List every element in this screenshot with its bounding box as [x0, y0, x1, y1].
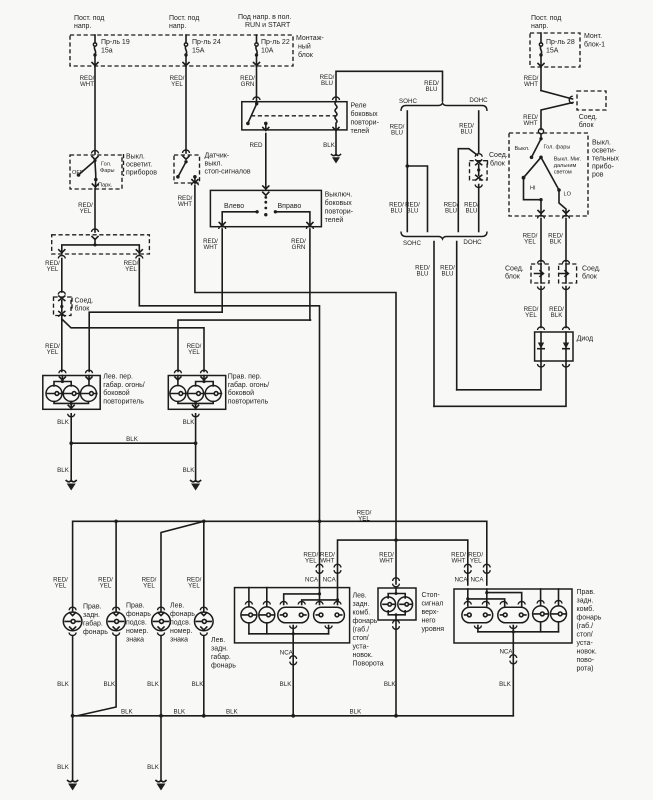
relay coil ground BLK — [335, 132, 337, 154]
link wires to diode — [457, 361, 541, 390]
svg-text:задн.: задн. — [577, 598, 594, 605]
svg-text:BLU: BLU — [321, 80, 333, 87]
svg-text:BLK: BLK — [192, 681, 205, 688]
wire fuse19 to headlight switch RED/WHT — [94, 66, 96, 154]
svg-text:YEL: YEL — [171, 81, 183, 88]
svg-text:DOHC: DOHC — [469, 97, 488, 104]
merged SOHC wire down — [433, 242, 435, 407]
svg-text:YEL: YEL — [55, 583, 67, 590]
svg-text:BLU: BLU — [391, 130, 403, 137]
svg-text:YEL: YEL — [143, 583, 155, 590]
svg-text:BLK: BLK — [280, 681, 293, 688]
right rear combination lamp Прав. задн. комб. фонарь — [454, 589, 602, 673]
svg-text:блок: блок — [298, 51, 314, 59]
svg-text:YEL: YEL — [470, 558, 482, 565]
svg-text:Пр-ль 28: Пр-ль 28 — [546, 39, 575, 46]
svg-text:NCA: NCA — [454, 577, 468, 584]
svg-text:повторитель: повторитель — [103, 398, 144, 405]
merged DOHC wire down — [456, 242, 458, 390]
svg-text:подсв.: подсв. — [170, 620, 191, 627]
left combo output to ground bus — [290, 656, 297, 665]
wires to diode — [540, 287, 542, 328]
svg-text:него: него — [422, 618, 436, 625]
svg-text:YEL: YEL — [80, 208, 92, 215]
bottoms — [474, 626, 481, 629]
rear lamp 3 Лев. фонарь подсв. номер. знака — [152, 603, 196, 644]
svg-text:знака: знака — [170, 637, 188, 644]
svg-text:прибо-: прибо- — [592, 163, 614, 171]
svg-text:фонарь: фонарь — [83, 629, 108, 636]
svg-text:повтори-: повтори- — [325, 209, 354, 216]
svg-text:BLK: BLK — [323, 142, 336, 149]
svg-text:NCA: NCA — [470, 577, 484, 584]
svg-text:WHT: WHT — [379, 558, 393, 565]
svg-text:Выкл.: Выкл. — [126, 154, 145, 161]
svg-text:напр.: напр. — [531, 23, 548, 30]
svg-text:YEL: YEL — [524, 239, 536, 246]
svg-text:блок: блок — [579, 121, 595, 129]
internals: feeds — [467, 589, 469, 606]
BLK ground bus — [73, 715, 514, 717]
svg-text:комб.: комб. — [577, 605, 595, 613]
svg-text:BLK: BLK — [121, 709, 134, 716]
svg-text:Пр-ль 24: Пр-ль 24 — [192, 39, 221, 46]
svg-text:телей: телей — [325, 216, 344, 224]
svg-text:блок-1: блок-1 — [584, 41, 605, 49]
svg-text:NCA: NCA — [323, 577, 337, 584]
Соед. блок connector (left) — [54, 292, 94, 317]
svg-text:светом: светом — [554, 170, 572, 176]
svg-text:YEL: YEL — [100, 583, 112, 590]
single bulbs — [533, 606, 549, 622]
svg-text:Прав. пер.: Прав. пер. — [228, 374, 262, 381]
wire relay to turn switch RED — [265, 134, 267, 190]
headlight switch Выкл. осветит. приборов — [70, 151, 157, 190]
svg-text:LO: LO — [564, 192, 572, 198]
svg-text:Поворота: Поворота — [353, 661, 384, 668]
fuse Пр-ль 24 15А — [183, 35, 221, 66]
svg-text:Гол. фары: Гол. фары — [544, 145, 571, 151]
svg-text:BLU: BLU — [460, 129, 472, 136]
internals: feeds — [319, 588, 321, 605]
DOHC wire RED/BLU — [478, 111, 480, 153]
svg-text:YEL: YEL — [188, 583, 200, 590]
svg-text:комб.: комб. — [353, 609, 371, 617]
svg-text:фонарь: фонарь — [211, 663, 236, 670]
NCA inline connectors (rear inputs) — [316, 564, 490, 587]
svg-text:блок: блок — [505, 273, 521, 281]
headlight switch big box Выкл. осветительных приборов — [509, 129, 619, 216]
turn switch right output RED/GRN — [306, 226, 313, 229]
svg-text:GRN: GRN — [292, 244, 306, 251]
svg-text:SOHC: SOHC — [403, 240, 421, 247]
svg-text:DOHC: DOHC — [463, 239, 482, 246]
svg-text:Соед.: Соед. — [582, 266, 601, 273]
svg-text:YEL: YEL — [305, 558, 317, 565]
svg-text:NCA: NCA — [280, 650, 294, 657]
RED/WHT stop feed bus — [394, 538, 398, 542]
svg-text:WHT: WHT — [320, 558, 334, 565]
svg-text:напр.: напр. — [169, 23, 186, 30]
svg-text:боковых: боковых — [325, 199, 353, 207]
svg-text:OFF: OFF — [72, 170, 84, 176]
svg-text:BLU: BLU — [416, 271, 428, 278]
brake switch output RED/WHT down right to stop feed — [191, 182, 198, 185]
svg-text:Стоп-: Стоп- — [422, 592, 441, 599]
svg-text:Влево: Влево — [224, 203, 244, 210]
svg-text:освети-: освети- — [592, 148, 617, 155]
svg-text:BLK: BLK — [183, 419, 196, 426]
fuse Пр-ль 22 10А — [254, 35, 290, 66]
wire connector to left front lamp RED/YEL — [61, 316, 63, 372]
diode Диод — [535, 327, 593, 367]
svg-text:Лев.: Лев. — [353, 593, 367, 600]
svg-text:Выкл.: Выкл. — [515, 146, 531, 152]
svg-text:BLK: BLK — [551, 312, 564, 319]
wire switch to distribution box RED/YEL — [94, 189, 96, 232]
svg-text:YEL: YEL — [125, 266, 137, 273]
svg-text:фонарь: фонарь — [170, 611, 195, 618]
right fuse block Монт. блок-1 — [530, 15, 605, 67]
svg-text:WHT: WHT — [524, 81, 538, 88]
svg-text:WHT: WHT — [451, 558, 465, 565]
svg-text:задн.: задн. — [211, 646, 228, 653]
svg-text:Прав.: Прав. — [83, 604, 102, 611]
svg-text:NCA: NCA — [305, 577, 319, 584]
svg-text:стоп-сигналов: стоп-сигналов — [205, 169, 251, 176]
svg-text:NCA: NCA — [499, 649, 513, 656]
svg-text:Лев. пер.: Лев. пер. — [103, 374, 133, 381]
svg-text:подсв.: подсв. — [126, 620, 147, 627]
svg-text:рота): рота) — [577, 666, 594, 673]
svg-text:Монтаж-: Монтаж- — [296, 35, 324, 42]
svg-text:Пост. под: Пост. под — [169, 15, 199, 22]
wire left output RED/YEL to Соед.блок — [58, 256, 65, 259]
right front lamp Прав. пер. габар. огонь/боковой повторитель — [168, 370, 269, 409]
front lamps ground wiring BLK — [57, 414, 200, 491]
svg-text:15а: 15а — [101, 48, 113, 55]
relay coil top feed RED/BLU to SOHC/DOHC split — [336, 71, 443, 101]
svg-text:фонарь: фонарь — [577, 615, 602, 622]
svg-text:уста-: уста- — [353, 644, 370, 651]
svg-text:боковой: боковой — [228, 389, 254, 397]
svg-text:SOHC: SOHC — [399, 98, 417, 105]
svg-text:BLK: BLK — [57, 419, 70, 426]
Соед. блок connector pair (diode row) — [505, 261, 549, 290]
wire RED/GRN right turn feed to right lamp terminal 1 — [178, 320, 311, 371]
svg-text:GRN: GRN — [241, 81, 255, 88]
svg-text:BLK: BLK — [126, 436, 139, 443]
svg-text:габар.: габар. — [83, 620, 103, 628]
svg-text:BLK: BLK — [57, 681, 70, 688]
svg-text:BLU: BLU — [406, 208, 418, 215]
svg-text:WHT: WHT — [178, 201, 192, 208]
svg-text:новок.: новок. — [353, 652, 373, 659]
svg-text:BLK: BLK — [183, 467, 196, 474]
svg-text:Пр-ль 19: Пр-ль 19 — [101, 39, 130, 46]
svg-text:осветит.: осветит. — [126, 162, 152, 169]
svg-text:фонарь: фонарь — [353, 618, 378, 625]
svg-text:BLK: BLK — [173, 709, 186, 716]
svg-text:фонарь: фонарь — [126, 611, 151, 618]
svg-text:сигнал: сигнал — [422, 601, 444, 608]
svg-text:Соед.: Соед. — [579, 114, 598, 121]
svg-text:BLK: BLK — [550, 239, 563, 246]
svg-text:BLU: BLU — [465, 208, 477, 215]
rear lamp 1 Прав. задн. габар. фонарь — [63, 604, 108, 637]
brake light switch Датчик-выкл. стоп-сигналов — [174, 150, 251, 183]
svg-text:габар. огонь/: габар. огонь/ — [228, 381, 270, 389]
wire fuse28 down RED/WHT with jog to Соед.блок — [540, 67, 542, 91]
svg-text:ров: ров — [592, 172, 604, 179]
ground right front — [191, 481, 201, 482]
Соед. блок connector (top right) — [577, 91, 606, 110]
svg-text:BLK: BLK — [103, 681, 116, 688]
RED/YEL rear bus — [73, 521, 487, 611]
svg-text:задн.: задн. — [353, 601, 370, 608]
BLK tie line — [71, 442, 195, 444]
svg-text:WHT: WHT — [523, 120, 537, 127]
top brace SOHC / DOHC — [401, 103, 487, 111]
svg-text:15А: 15А — [192, 48, 205, 55]
svg-text:HI: HI — [530, 186, 536, 192]
right combo output to ground bus — [510, 655, 517, 664]
svg-text:YEL: YEL — [47, 349, 59, 356]
svg-text:15А: 15А — [546, 48, 559, 55]
left rear combination lamp Лев. задн. комб. фонарь — [235, 588, 384, 668]
svg-text:верх-: верх- — [422, 609, 440, 616]
wire RED/WHT left turn feed to left lamp terminal 2 — [89, 312, 222, 371]
svg-text:повторитель: повторитель — [228, 398, 269, 405]
svg-text:BLK: BLK — [384, 681, 397, 688]
svg-text:Выкл. Миг.: Выкл. Миг. — [554, 157, 582, 163]
svg-text:Соед.: Соед. — [505, 266, 524, 273]
svg-text:боковой: боковой — [103, 389, 129, 397]
svg-text:стоп/: стоп/ — [353, 635, 369, 642]
svg-text:ный: ный — [298, 43, 311, 51]
svg-text:габар.: габар. — [211, 653, 231, 661]
branch diagonal to horizontal feed for right lamp — [62, 319, 204, 372]
fuse Пр-ль 28 15А — [540, 33, 542, 43]
svg-text:тельных: тельных — [592, 156, 619, 163]
svg-text:Пр-ль 22: Пр-ль 22 — [261, 39, 290, 46]
svg-text:BLK: BLK — [350, 709, 363, 716]
dual bulbs — [462, 607, 493, 623]
svg-text:дальним: дальним — [554, 163, 577, 169]
svg-text:напр.: напр. — [74, 23, 91, 30]
svg-text:уста-: уста- — [577, 640, 594, 647]
svg-text:уровня: уровня — [422, 626, 445, 633]
svg-text:Соед.: Соед. — [75, 298, 94, 305]
svg-text:YEL: YEL — [525, 312, 537, 319]
svg-text:WHT: WHT — [203, 244, 217, 251]
svg-text:BLK: BLK — [147, 681, 160, 688]
bottom brace SOHC / DOHC — [401, 232, 487, 240]
wire fuse24 to brake switch RED/YEL — [185, 66, 187, 153]
montage block (fuse box) — [70, 35, 293, 66]
svg-text:блок: блок — [75, 305, 91, 313]
svg-text:Пост. под: Пост. под — [531, 15, 561, 22]
fuse Пр-ль 19 15а — [92, 35, 130, 66]
svg-text:BLU: BLU — [441, 271, 453, 278]
svg-text:повтори-: повтори- — [351, 120, 380, 127]
svg-text:Фары: Фары — [100, 168, 115, 174]
svg-text:BLU: BLU — [425, 86, 437, 93]
svg-text:BLU: BLU — [445, 208, 457, 215]
svg-text:Пост. под: Пост. под — [74, 15, 104, 22]
svg-text:номер.: номер. — [170, 628, 192, 635]
svg-text:BLK: BLK — [499, 681, 512, 688]
svg-text:YEL: YEL — [47, 266, 59, 273]
svg-text:пово-: пово- — [577, 657, 595, 664]
bottoms — [290, 626, 297, 629]
svg-text:WHT: WHT — [80, 81, 94, 88]
relay Реле боковых повторителей — [242, 97, 380, 135]
rear bus drops — [115, 521, 117, 611]
svg-text:BLK: BLK — [57, 467, 70, 474]
Соед. блок connector (DOHC) — [470, 152, 508, 232]
svg-text:Выкл.: Выкл. — [592, 140, 611, 147]
svg-text:блок: блок — [582, 273, 598, 281]
SOHC wire RED/BLU — [406, 111, 408, 232]
rear lamp 2 Прав. фонарь подсв. номер. знака — [107, 603, 152, 644]
DOHC branch to second wire — [458, 149, 477, 232]
svg-text:Датчик-: Датчик- — [205, 153, 230, 160]
svg-text:боковых: боковых — [351, 110, 379, 118]
svg-text:стоп/: стоп/ — [577, 632, 593, 639]
svg-text:блок: блок — [490, 160, 506, 168]
left front lamp Лев. пер. габар. огонь/боковой повторитель — [43, 370, 145, 409]
svg-text:BLK: BLK — [57, 764, 70, 771]
dual bulbs — [278, 607, 309, 623]
svg-text:номер.: номер. — [126, 628, 148, 635]
center stop lamp Стоп-сигнал верхнего уровня — [378, 588, 444, 633]
svg-text:задн.: задн. — [83, 612, 100, 619]
single bulbs — [241, 607, 257, 623]
svg-text:BLK: BLK — [147, 764, 160, 771]
svg-text:Гол.: Гол. — [101, 162, 112, 168]
RED/YEL rear feed: dist right output down, right, down to rear bus — [136, 256, 143, 259]
svg-text:Прав.: Прав. — [126, 603, 145, 610]
svg-text:BLU: BLU — [390, 208, 402, 215]
svg-text:Реле: Реле — [351, 103, 367, 110]
svg-text:Лев.: Лев. — [170, 603, 184, 610]
svg-text:Прав.: Прав. — [577, 589, 596, 596]
svg-text:Соед.: Соед. — [489, 152, 508, 159]
svg-text:габар. огонь/: габар. огонь/ — [103, 381, 145, 389]
svg-text:приборов: приборов — [126, 169, 157, 177]
svg-text:выкл.: выкл. — [205, 161, 223, 168]
svg-text:RUN и START: RUN и START — [245, 22, 291, 29]
switch outputs RED/YEL + RED/BLK — [538, 216, 545, 219]
svg-text:BLK: BLK — [226, 709, 239, 716]
svg-text:телей: телей — [351, 127, 370, 135]
svg-text:Диод: Диод — [577, 336, 593, 343]
svg-text:(габ./: (габ./ — [353, 626, 370, 634]
turn switch left output RED/WHT — [219, 226, 226, 229]
svg-text:Парк.: Парк. — [98, 183, 113, 189]
left combo RED/YEL drop from bus — [319, 521, 321, 587]
turn signal switch Выключ. боковых повторителей — [210, 186, 353, 227]
svg-text:Под напр. в пол.: Под напр. в пол. — [238, 14, 291, 21]
svg-text:YEL: YEL — [358, 516, 370, 523]
ground left front — [66, 481, 76, 482]
rear lamp 4 Лев. задн. габар. фонарь — [195, 607, 237, 669]
svg-text:знака: знака — [126, 637, 144, 644]
svg-text:Лев.: Лев. — [211, 637, 225, 644]
wire fuse22 to relay RED/GRN — [256, 66, 258, 102]
svg-text:Вправо: Вправо — [278, 203, 302, 210]
svg-text:новок.: новок. — [577, 649, 597, 656]
svg-text:Монт.: Монт. — [584, 33, 602, 40]
svg-text:Выключ.: Выключ. — [325, 192, 353, 199]
svg-text:(габ./: (габ./ — [577, 622, 594, 630]
distribution connector box — [52, 229, 150, 254]
svg-text:YEL: YEL — [188, 349, 200, 356]
svg-text:10А: 10А — [261, 48, 274, 55]
svg-text:RED: RED — [249, 142, 263, 149]
